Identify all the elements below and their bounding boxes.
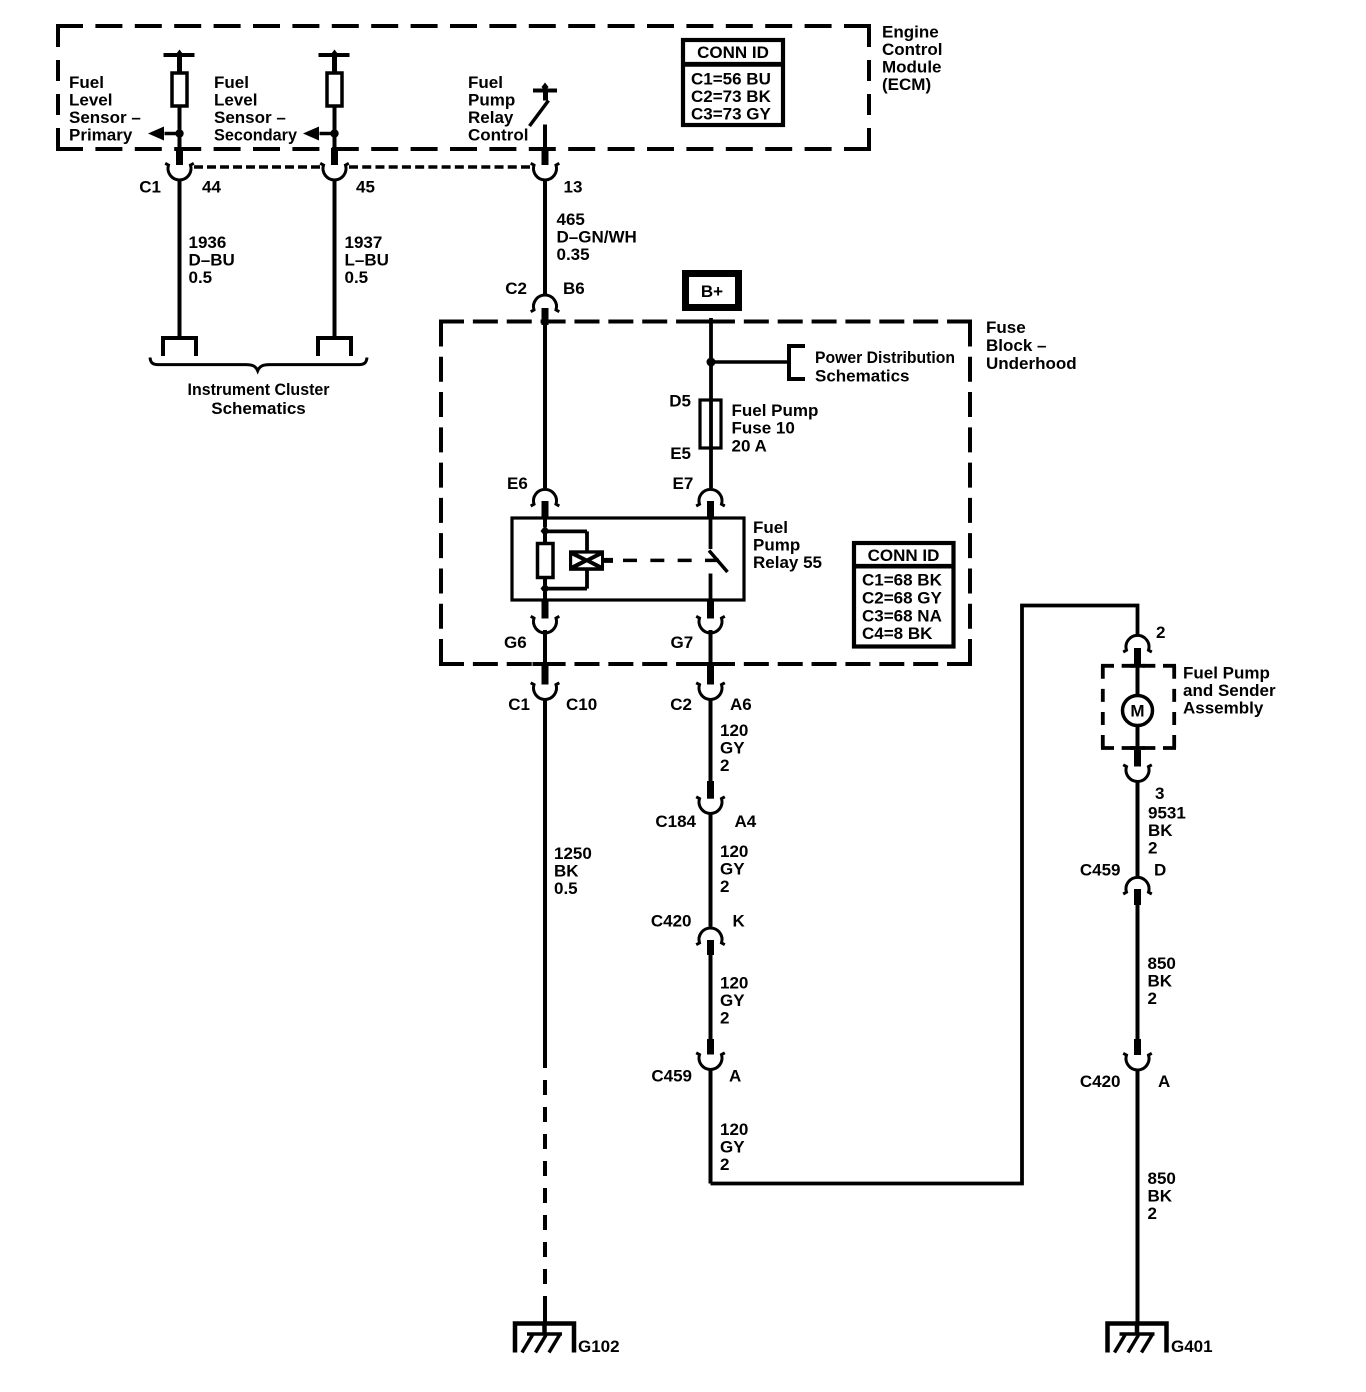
- svg-text:44: 44: [202, 178, 221, 197]
- wire 850 BK 2 segment 2: [1136, 1070, 1140, 1325]
- svg-text:120: 120: [720, 973, 748, 992]
- connector pin 3 (fuel pump): [1123, 750, 1152, 781]
- svg-text:Pump: Pump: [468, 91, 515, 110]
- wire 120 GY 2 segment 4: [709, 1070, 713, 1184]
- connector C1 labels: [139, 178, 582, 197]
- svg-text:C2: C2: [505, 279, 527, 298]
- instrument cluster brace: [150, 358, 367, 371]
- svg-text:D: D: [1154, 861, 1166, 880]
- wire to relay E6: [543, 325, 547, 488]
- connector C1 pin 13: [531, 148, 560, 180]
- connector C2 pin A6: [696, 662, 725, 699]
- svg-text:and Sender: and Sender: [1183, 681, 1276, 700]
- fuel level sensor primary label: [69, 73, 141, 145]
- connector C1 pin 45: [320, 148, 349, 180]
- svg-text:C420: C420: [1080, 1072, 1121, 1091]
- svg-text:0.35: 0.35: [557, 245, 590, 264]
- svg-text:C1=56 BU: C1=56 BU: [691, 69, 771, 88]
- connector C1/C10 labels: [508, 695, 597, 714]
- svg-text:120: 120: [720, 1120, 748, 1139]
- svg-text:2: 2: [1148, 839, 1157, 858]
- fuel pump assembly label: [1183, 663, 1276, 717]
- svg-text:A: A: [1158, 1072, 1170, 1091]
- fuse block underhood label: [986, 318, 1077, 373]
- svg-text:1936: 1936: [189, 233, 227, 252]
- relay terminal G7: [696, 600, 725, 633]
- wire 1250 dashed part: [543, 1053, 547, 1311]
- svg-text:2: 2: [1156, 623, 1165, 642]
- power distribution bracket: [789, 346, 805, 379]
- wire 1937 label: [345, 233, 389, 287]
- svg-text:Underhood: Underhood: [986, 354, 1077, 373]
- svg-text:C2: C2: [670, 695, 692, 714]
- svg-text:2: 2: [1148, 989, 1157, 1008]
- svg-text:C2=73 BK: C2=73 BK: [691, 87, 772, 106]
- connector C2/A6 labels: [670, 695, 751, 714]
- svg-text:D5: D5: [669, 392, 691, 411]
- CONN ID table (fuse block): [854, 543, 954, 647]
- svg-text:C459: C459: [651, 1066, 692, 1085]
- wire 120 GY 2 segment 1: [709, 700, 713, 782]
- wire 1936 label: [189, 233, 235, 287]
- fuel pump relay label: [753, 518, 822, 572]
- svg-text:Secondary: Secondary: [214, 126, 298, 145]
- fuel level sensor primary (potentiometer): [148, 50, 195, 150]
- svg-text:C4=8 BK: C4=8 BK: [862, 624, 933, 643]
- svg-text:C2=68 GY: C2=68 GY: [862, 588, 943, 607]
- fuse block underhood dashed box: [439, 322, 972, 665]
- svg-text:850: 850: [1148, 1169, 1176, 1188]
- svg-text:Pump: Pump: [753, 536, 800, 555]
- svg-text:D–BU: D–BU: [189, 251, 235, 270]
- svg-text:Relay 55: Relay 55: [753, 553, 822, 572]
- wire 1250 label: [554, 844, 592, 898]
- svg-text:BK: BK: [1148, 971, 1173, 990]
- connector C2 pin B6: [531, 295, 560, 325]
- wire 1937 L-BU 0.5: [333, 180, 337, 338]
- wire fuse to relay E7: [709, 448, 713, 488]
- svg-text:9531: 9531: [1148, 804, 1186, 823]
- svg-text:A4: A4: [735, 812, 757, 831]
- wire 120 label 1: [720, 721, 748, 775]
- svg-text:BK: BK: [1148, 821, 1173, 840]
- svg-text:C3=68 NA: C3=68 NA: [862, 606, 942, 625]
- fuse terminal labels: [669, 392, 691, 463]
- svg-text:CONN ID: CONN ID: [697, 43, 769, 62]
- svg-text:120: 120: [720, 721, 748, 740]
- connector pin 2 (fuel pump): [1123, 635, 1152, 666]
- loop wire to fuel pump: [711, 606, 1138, 1184]
- svg-text:K: K: [733, 911, 746, 930]
- svg-text:B+: B+: [701, 282, 723, 301]
- svg-text:C1: C1: [139, 178, 161, 197]
- svg-text:3: 3: [1155, 784, 1164, 803]
- svg-text:Control: Control: [882, 40, 942, 59]
- svg-text:A: A: [729, 1066, 741, 1085]
- relay coil branch: [541, 518, 550, 544]
- svg-text:D–GN/WH: D–GN/WH: [557, 228, 637, 247]
- wire 1936 D-BU 0.5: [178, 180, 182, 338]
- svg-text:Relay: Relay: [468, 108, 514, 127]
- svg-text:Sensor –: Sensor –: [214, 108, 286, 127]
- svg-text:B6: B6: [563, 279, 585, 298]
- fuel pump fuse D5/E5: [700, 400, 721, 448]
- fuse value label: [732, 401, 819, 455]
- svg-text:BK: BK: [1148, 1187, 1173, 1206]
- instrument cluster terminal 44: [163, 338, 196, 356]
- power distribution tap wire: [711, 360, 789, 364]
- connector C420 pin K: [696, 928, 725, 955]
- wire 850 BK 2 segment 1: [1136, 905, 1140, 1039]
- svg-text:G102: G102: [578, 1337, 620, 1356]
- svg-text:Fuel: Fuel: [69, 73, 104, 92]
- connector C459/D labels: [1080, 861, 1166, 880]
- svg-text:G6: G6: [504, 633, 527, 652]
- svg-text:465: 465: [557, 210, 585, 229]
- B+ battery feed box: [686, 274, 739, 308]
- fuse block border dash at C2/A6 stub: [698, 662, 723, 666]
- svg-text:C184: C184: [655, 812, 696, 831]
- svg-text:Assembly: Assembly: [1183, 699, 1264, 718]
- svg-text:1937: 1937: [345, 233, 383, 252]
- svg-text:2: 2: [720, 1008, 729, 1027]
- wire 9531 label: [1148, 804, 1186, 858]
- connector C420 pin A: [1123, 1039, 1152, 1070]
- svg-text:L–BU: L–BU: [345, 251, 389, 270]
- svg-text:Fuel: Fuel: [753, 518, 788, 537]
- instrument cluster schematics label: [188, 380, 330, 418]
- relay switch contact: [709, 518, 728, 600]
- fuel pump relay control driver switch: [530, 83, 558, 150]
- wire B+ to fuse: [709, 318, 713, 401]
- relay coil loop wires: [545, 531, 587, 588]
- svg-text:2: 2: [720, 877, 729, 896]
- svg-text:120: 120: [720, 842, 748, 861]
- connector C420/A labels: [1080, 1072, 1170, 1091]
- svg-text:G7: G7: [671, 633, 694, 652]
- wire 850 label 1: [1148, 954, 1176, 1008]
- svg-text:Control: Control: [468, 126, 528, 145]
- connector C459 pin A: [696, 1039, 725, 1069]
- E6/E7 labels: [507, 474, 693, 493]
- connector C459 pin D: [1123, 877, 1152, 905]
- svg-text:Sensor –: Sensor –: [69, 108, 141, 127]
- wire 120 label 4: [720, 1120, 748, 1174]
- relay coil resistor: [538, 544, 554, 578]
- junction node: [707, 358, 716, 367]
- svg-text:M: M: [1130, 702, 1144, 721]
- relay actuation dashed line: [604, 558, 719, 563]
- svg-text:Fuse: Fuse: [986, 318, 1026, 337]
- svg-text:Fuel Pump: Fuel Pump: [732, 401, 819, 420]
- CONN ID table (ECM): [683, 40, 783, 125]
- fuel pump relay 55 box: [512, 518, 744, 600]
- wire 120 GY 2 segment 3: [709, 955, 713, 1039]
- svg-text:Instrument Cluster: Instrument Cluster: [188, 380, 330, 399]
- svg-text:13: 13: [564, 178, 583, 197]
- svg-text:E5: E5: [670, 444, 691, 463]
- fuel pump motor: [1123, 666, 1153, 750]
- wire 9531 BK 2: [1136, 782, 1140, 877]
- svg-text:GY: GY: [720, 860, 745, 879]
- svg-text:2: 2: [720, 756, 729, 775]
- svg-text:GY: GY: [720, 991, 745, 1010]
- svg-text:Fuel: Fuel: [468, 73, 503, 92]
- relay solenoid coil symbol: [569, 550, 604, 571]
- fuel level sensor secondary label: [214, 73, 298, 145]
- fuel level sensor secondary (potentiometer): [303, 50, 350, 150]
- svg-text:GY: GY: [720, 739, 745, 758]
- connector C1 dotted line: [194, 165, 530, 169]
- svg-text:Fuse 10: Fuse 10: [732, 419, 795, 438]
- svg-text:Power Distribution: Power Distribution: [815, 348, 955, 367]
- svg-text:Schematics: Schematics: [211, 399, 306, 418]
- fuel pump and sender assembly dashed box: [1101, 666, 1176, 748]
- relay terminal E6: [531, 489, 560, 519]
- svg-text:Fuel: Fuel: [214, 73, 249, 92]
- svg-text:C1: C1: [508, 695, 530, 714]
- svg-text:850: 850: [1148, 954, 1176, 973]
- connector C459/A labels: [651, 1066, 741, 1085]
- connector C1 pin C10: [531, 662, 560, 699]
- fuse block border dash at C1/C10 stub: [533, 662, 558, 666]
- svg-text:Fuel Pump: Fuel Pump: [1183, 663, 1270, 682]
- svg-text:Module: Module: [882, 58, 942, 77]
- svg-text:Engine: Engine: [882, 23, 939, 42]
- G6/G7 labels: [504, 633, 693, 652]
- svg-text:0.5: 0.5: [554, 879, 578, 898]
- connector C1 pin 44: [165, 148, 194, 180]
- svg-text:A6: A6: [730, 695, 752, 714]
- svg-text:(ECM): (ECM): [882, 75, 931, 94]
- svg-text:E7: E7: [673, 474, 694, 493]
- svg-text:CONN ID: CONN ID: [868, 546, 940, 565]
- svg-text:E6: E6: [507, 474, 528, 493]
- relay coil lower node: [541, 578, 550, 601]
- svg-text:GY: GY: [720, 1138, 745, 1157]
- ground G102: [515, 1323, 620, 1356]
- relay terminal E7: [696, 489, 725, 519]
- svg-text:0.5: 0.5: [189, 268, 213, 287]
- wire 120 label 2: [720, 842, 748, 896]
- connector C184 pin A4: [696, 781, 725, 813]
- wire 850 label 2: [1148, 1169, 1176, 1223]
- connector C420/K labels: [651, 911, 746, 930]
- relay terminal G6: [531, 600, 560, 633]
- svg-text:1250: 1250: [554, 844, 592, 863]
- svg-text:C3=73 GY: C3=73 GY: [691, 104, 772, 123]
- svg-text:Level: Level: [214, 91, 257, 110]
- svg-text:C1=68 BK: C1=68 BK: [862, 571, 943, 590]
- fuse block border dash at B+ wire: [699, 320, 724, 324]
- svg-text:G401: G401: [1171, 1337, 1213, 1356]
- svg-text:C420: C420: [651, 911, 692, 930]
- svg-text:BK: BK: [554, 862, 579, 881]
- pump box border dash at wire top: [1130, 664, 1145, 668]
- wire 120 label 3: [720, 973, 748, 1027]
- pump box border dash at wire bottom: [1130, 746, 1145, 750]
- wire 120 GY 2 segment 2: [709, 814, 713, 927]
- wire 465 label: [557, 210, 637, 264]
- ground G401: [1108, 1323, 1213, 1356]
- wire G6 to C1: [543, 630, 547, 664]
- wire 1250 BK 0.5 solid part: [543, 700, 547, 1054]
- ECM module dashed box: [56, 26, 871, 149]
- svg-text:Level: Level: [69, 91, 112, 110]
- svg-text:Schematics: Schematics: [815, 367, 910, 386]
- fuel pump relay control driver label: [468, 73, 528, 145]
- connector C184/A4 labels: [655, 812, 756, 831]
- svg-text:C10: C10: [566, 695, 597, 714]
- svg-text:Primary: Primary: [69, 126, 133, 145]
- ECM label text: [882, 23, 942, 95]
- svg-text:45: 45: [356, 178, 375, 197]
- svg-text:20 A: 20 A: [732, 436, 767, 455]
- svg-text:0.5: 0.5: [345, 268, 369, 287]
- svg-text:2: 2: [1148, 1204, 1157, 1223]
- svg-text:C459: C459: [1080, 861, 1121, 880]
- svg-text:2: 2: [720, 1155, 729, 1174]
- svg-text:Block –: Block –: [986, 336, 1046, 355]
- connector C2/B6 labels: [505, 279, 584, 298]
- wire G7 to C2: [709, 630, 713, 664]
- wire 465 D-GN/WH 0.35: [543, 180, 547, 294]
- power distribution label: [815, 348, 955, 386]
- instrument cluster terminal 45: [318, 338, 351, 356]
